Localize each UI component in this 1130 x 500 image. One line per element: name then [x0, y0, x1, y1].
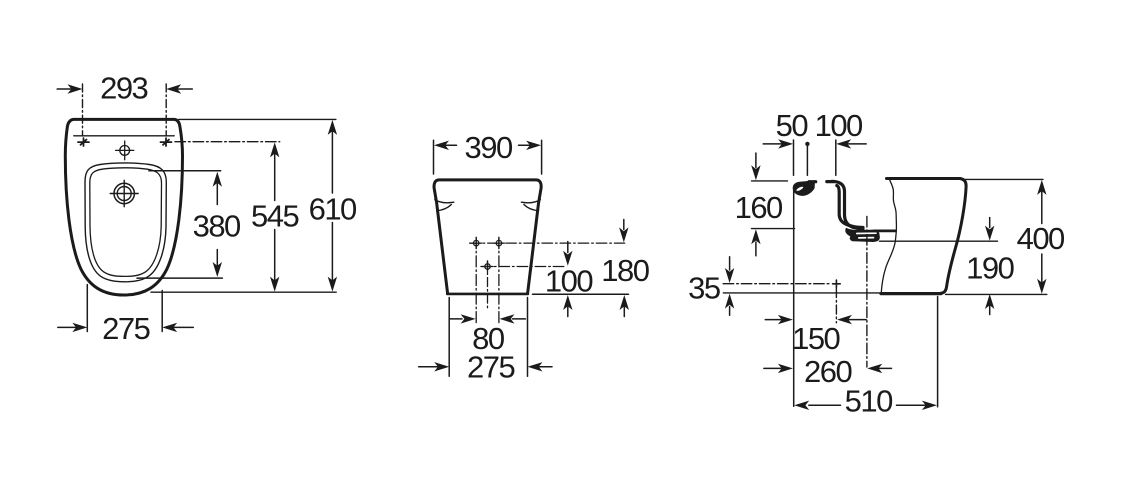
front view fixing hole left — [471, 238, 482, 249]
dimension 100 lower arrow — [563, 295, 572, 317]
svg-text:380: 380 — [193, 208, 241, 243]
plan view right fixing hole mark — [161, 138, 172, 146]
plan bottom reference line for 545 610 — [151, 291, 336, 293]
side section wall outer stroke — [832, 181, 863, 229]
dimension 545 line upper — [270, 142, 279, 200]
svg-text:510: 510 — [845, 383, 893, 418]
plan view tap hole crosshair small — [116, 141, 134, 160]
svg-text:150: 150 — [792, 321, 840, 356]
front view left rim curve upper — [435, 200, 454, 203]
dimension 50 left arrow — [763, 139, 793, 148]
side body bottom edge — [881, 292, 941, 295]
svg-text:100: 100 — [815, 108, 863, 143]
dimension 510 right arrow and line — [897, 401, 937, 410]
side front face extension line — [793, 189, 795, 407]
dimension 390 left arrow — [434, 141, 457, 150]
front view right hole axis vertical — [498, 237, 500, 322]
dimension 100 right extension — [835, 140, 837, 175]
plan view inner back edge line — [74, 135, 174, 137]
dimension 160 upper arrow — [751, 153, 760, 180]
front view right rim curve upper — [521, 200, 540, 203]
dimension 510 right extension — [937, 297, 939, 407]
svg-text:35: 35 — [688, 271, 720, 306]
side 190 top reference line — [880, 240, 998, 242]
dimension 390 right arrow — [519, 141, 542, 150]
side hole axis vertical dash-dot — [835, 289, 837, 323]
side section nose blob — [793, 180, 815, 195]
svg-text:275: 275 — [102, 311, 149, 346]
front view fixing hole right — [493, 238, 504, 249]
dimension 510 left arrow and line — [794, 401, 840, 410]
side section wall inner stroke — [837, 186, 863, 228]
dimension 545 line lower — [270, 230, 279, 292]
plan top edge extension line — [179, 118, 336, 120]
side section bowl bottom line to break — [874, 229, 896, 232]
front view fixing hole center — [482, 261, 493, 272]
svg-text:100: 100 — [545, 263, 593, 298]
dimension 100 right arrow — [836, 139, 866, 148]
dimension 390 left extension — [433, 140, 435, 174]
dimension 160 lower arrow — [751, 229, 760, 256]
side section drain hub — [845, 228, 880, 242]
dimension 35 upper arrow — [725, 257, 734, 283]
dimension 275 plan left arrow — [58, 323, 88, 332]
side body top edge — [887, 177, 961, 180]
side section drain hub slit lower — [859, 237, 874, 239]
side break wavy line — [881, 180, 896, 294]
side section deck right segment — [827, 180, 834, 183]
side section deck left segment — [809, 180, 816, 183]
dimension 275 front right extension — [527, 298, 529, 377]
dimension 150 right arrow — [837, 315, 866, 324]
dimension 180 lower arrow — [620, 295, 629, 317]
svg-text:190: 190 — [966, 251, 1014, 286]
svg-text:275: 275 — [467, 349, 514, 384]
front view left rim curve lower — [437, 205, 452, 211]
front view outline — [434, 180, 541, 293]
plan view bowl drain crosshair — [110, 180, 138, 206]
side bottom right extension line — [946, 293, 1047, 295]
side hole axis dash-dot horizontal 35 — [723, 283, 830, 285]
dimension 150 left arrow — [765, 315, 793, 324]
side section nose white sliver — [796, 186, 804, 192]
dimension 100 upper arrow — [563, 242, 572, 266]
dimension 260 left arrow — [764, 364, 793, 373]
svg-text:293: 293 — [100, 71, 147, 106]
dimension 275 plan right arrow — [162, 323, 193, 332]
dimension 400 lower arrow and line — [1037, 254, 1046, 294]
plan view bowl outer rim — [85, 163, 166, 282]
dimension 260 right arrow — [867, 364, 891, 373]
plan view left fixing hole mark — [78, 138, 89, 146]
side 160 bottom reference line — [752, 228, 795, 230]
dimension 293 left extension dash-dot — [82, 84, 84, 136]
side drain axis vertical dash-dot — [866, 217, 868, 368]
dimension 80 left arrow — [450, 314, 476, 323]
dimension 293 right extension dash-dot — [165, 84, 167, 136]
svg-text:390: 390 — [464, 130, 512, 165]
plan view body outline — [65, 119, 182, 295]
dimension 50 100 shared extension — [806, 144, 808, 176]
dimension 50 100 shared dot — [805, 142, 809, 146]
dimension 610 line upper — [328, 120, 337, 193]
front view upper holes axis dash-dot horizontal — [470, 242, 625, 244]
380 bottom reference line — [137, 277, 222, 279]
dimension 293 right arrow — [166, 84, 192, 93]
dimension 275 plan right extension — [161, 291, 163, 332]
side floor reference line — [723, 292, 880, 294]
dimension 610 line lower — [328, 223, 337, 292]
plan horizontal centerline dash-dot — [175, 141, 280, 143]
dimension 190 lower arrow — [985, 294, 994, 315]
dimension 400 upper arrow and line — [1037, 180, 1046, 224]
side ledge top reference line — [752, 180, 788, 182]
dimension 190 upper arrow — [985, 218, 994, 241]
plan view bowl inner line — [90, 168, 162, 277]
dimension 50 left extension — [793, 140, 795, 175]
dimension 275 plan left extension — [86, 285, 88, 332]
svg-text:610: 610 — [309, 191, 357, 226]
svg-text:50: 50 — [776, 108, 809, 143]
front view center hole axis vertical — [487, 261, 489, 308]
dimension 35 lower arrow — [725, 294, 734, 316]
side body right profile — [941, 179, 967, 294]
dimension 80 right arrow — [500, 314, 526, 323]
front view center hole axis dash-dot horizontal — [481, 266, 567, 268]
dimension 275 front left arrow — [419, 362, 450, 371]
dimension 293 left arrow — [57, 84, 82, 93]
svg-text:545: 545 — [251, 199, 298, 234]
side top right extension line — [965, 178, 1044, 180]
dimension 380 upper arrow — [213, 172, 222, 205]
380 top reference line — [149, 170, 221, 172]
side section drain hub slit upper — [857, 232, 876, 234]
dimension 380 lower arrow — [213, 250, 222, 278]
svg-text:400: 400 — [1017, 221, 1065, 256]
dimension 275 front left extension — [448, 298, 450, 377]
front view right rim curve lower — [524, 205, 539, 211]
side fixing hole cross — [833, 280, 841, 287]
svg-text:160: 160 — [735, 190, 783, 225]
dimension 275 front right arrow — [528, 362, 553, 371]
front view left hole axis vertical — [475, 237, 477, 322]
front floor reference line — [533, 293, 629, 295]
front view bottom edge — [447, 293, 528, 296]
dimension 180 upper arrow — [619, 220, 628, 243]
dimension 390 right extension — [541, 140, 543, 174]
svg-text:180: 180 — [601, 253, 649, 288]
